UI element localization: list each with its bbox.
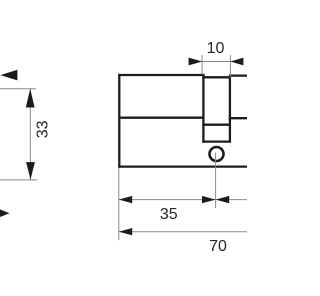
- cropped arrow top-left pointing left: [0, 70, 17, 81]
- dim 35 left arrow pointing left: [119, 196, 132, 203]
- dim 33 up arrow: [26, 89, 35, 108]
- cam slot upper rung: [202, 124, 231, 126]
- dim 35 line: [119, 199, 247, 201]
- dim 70 left arrow pointing left: [119, 228, 132, 235]
- dim 33 bottom extension line: [0, 179, 37, 181]
- dim 10 right arrow pointing left: [230, 58, 243, 66]
- dim 33 down arrow: [26, 162, 35, 180]
- cylinder body top edge right segment: [229, 74, 247, 76]
- cam slot lower rung: [202, 140, 231, 142]
- dim 70 line: [119, 231, 247, 233]
- body middle parting line right segment: [229, 117, 247, 119]
- extension line from screw hole: [215, 153, 217, 209]
- dim 33 vertical line: [29, 89, 31, 180]
- body middle parting line left segment: [120, 117, 204, 119]
- dim 33 top extension line: [0, 88, 36, 90]
- cam slot right vertical: [229, 76, 231, 143]
- svg-text:33: 33: [34, 120, 51, 138]
- svg-text:10: 10: [207, 40, 225, 57]
- cam slot left vertical: [202, 76, 204, 143]
- fixing screw hole circle: [210, 147, 224, 161]
- adjoining dim arrow pointing left at 35 mark: [216, 196, 230, 203]
- extension line body bottom-left corner: [118, 168, 120, 240]
- dim 10 line: [189, 61, 244, 63]
- dim 35 right arrow pointing right: [202, 196, 216, 203]
- dim 10 left extension line: [201, 55, 203, 75]
- cropped arrow bottom-left pointing right: [0, 206, 10, 220]
- svg-text:70: 70: [209, 238, 227, 255]
- svg-text:35: 35: [160, 206, 178, 223]
- cylinder body left edge: [118, 74, 120, 168]
- dim 10 right extension line: [229, 55, 231, 77]
- cylinder body bottom edge: [118, 165, 247, 167]
- dim 10 left arrow pointing right: [189, 58, 203, 66]
- cam slot top line: [202, 76, 231, 78]
- cylinder body top edge left segment: [118, 74, 204, 76]
